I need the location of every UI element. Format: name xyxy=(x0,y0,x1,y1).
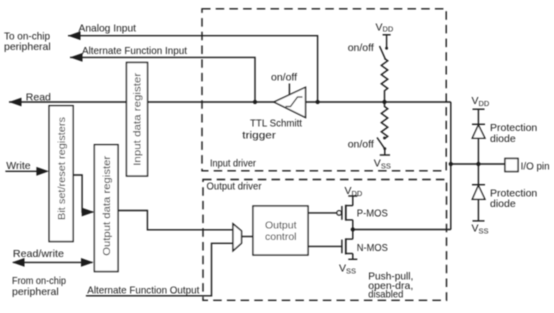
svg-text:Input data register: Input data register xyxy=(132,72,144,166)
svg-text:N-MOS: N-MOS xyxy=(357,242,388,254)
svg-text:I/O pin: I/O pin xyxy=(521,161,550,173)
svg-text:peripheral: peripheral xyxy=(12,286,59,298)
svg-text:on/off: on/off xyxy=(271,72,297,84)
svg-text:Read: Read xyxy=(26,91,51,103)
svg-text:on/off: on/off xyxy=(348,139,374,151)
svg-text:P-MOS: P-MOS xyxy=(357,208,388,220)
svg-text:Alternate Function Input: Alternate Function Input xyxy=(82,45,187,57)
svg-text:Output: Output xyxy=(265,220,297,232)
svg-text:Output data register: Output data register xyxy=(101,155,113,256)
svg-text:Alternate Function Output: Alternate Function Output xyxy=(87,285,199,297)
svg-text:VDD: VDD xyxy=(345,185,363,198)
svg-text:VSS: VSS xyxy=(374,158,391,171)
svg-text:Analog Input: Analog Input xyxy=(79,23,137,35)
svg-text:diode: diode xyxy=(490,198,516,210)
svg-text:trigger: trigger xyxy=(242,130,276,142)
svg-text:VSS: VSS xyxy=(472,223,489,236)
svg-text:VSS: VSS xyxy=(339,263,356,276)
svg-text:Write: Write xyxy=(6,160,30,172)
svg-text:Output driver: Output driver xyxy=(207,181,262,193)
svg-text:control: control xyxy=(265,231,297,243)
svg-text:Input driver: Input driver xyxy=(210,158,256,170)
svg-text:TTL Schmitt: TTL Schmitt xyxy=(250,118,302,130)
svg-text:peripheral: peripheral xyxy=(4,41,51,53)
svg-text:Bit set/reset registers: Bit set/reset registers xyxy=(56,117,68,220)
svg-text:VDD: VDD xyxy=(376,21,394,33)
svg-text:Read/write: Read/write xyxy=(13,248,64,260)
svg-text:on/off: on/off xyxy=(348,42,374,54)
svg-text:disabled: disabled xyxy=(368,289,403,301)
svg-text:VDD: VDD xyxy=(472,95,490,108)
svg-text:diode: diode xyxy=(490,133,516,145)
